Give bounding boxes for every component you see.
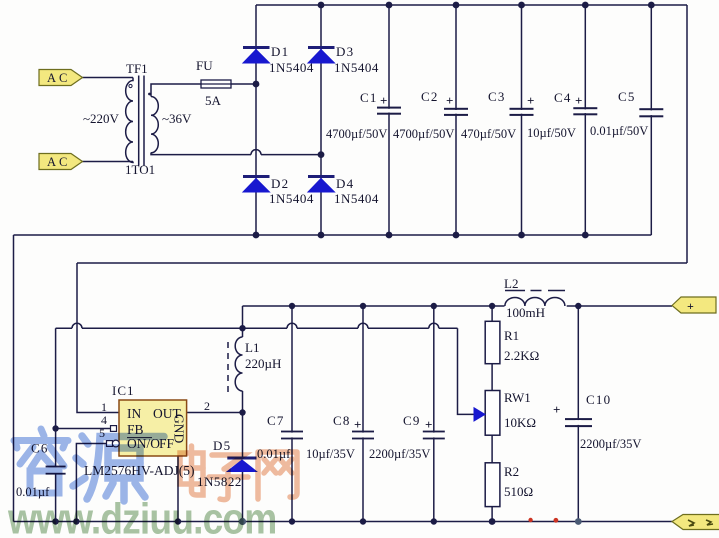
svg-text:1TO1: 1TO1 — [125, 162, 155, 177]
diode D1 1N5404 — [243, 44, 314, 75]
svg-text:C1: C1 — [360, 90, 378, 105]
capacitor C7 0.01uf — [257, 413, 303, 461]
svg-text:10KΩ: 10KΩ — [504, 415, 536, 430]
stray red marks — [528, 518, 532, 522]
svg-text:D5: D5 — [213, 438, 231, 453]
svg-text:FU: FU — [196, 58, 213, 73]
svg-text:220µH: 220µH — [245, 356, 281, 371]
node fuse to bridge junction — [253, 81, 260, 88]
wire right feed drop — [686, 5, 688, 263]
resistor R2 510 — [485, 463, 533, 507]
svg-text:TF1: TF1 — [126, 61, 148, 76]
svg-text:510Ω: 510Ω — [504, 484, 533, 499]
svg-text:+: + — [687, 299, 694, 313]
junction dots top bus — [318, 2, 655, 9]
capacitor C10 2200uf/35V — [553, 392, 641, 451]
wire feedback left vertical to FB pin and C6 — [55, 328, 57, 466]
capacitor C6 0.01uf — [16, 441, 66, 500]
svg-text:AC: AC — [47, 71, 70, 85]
wire FB pin line — [56, 428, 111, 430]
junction dots ground bus — [52, 518, 581, 525]
AC terminal flag bottom — [39, 154, 83, 170]
svg-text:+: + — [380, 93, 387, 108]
output terminal flag positive — [672, 297, 716, 313]
svg-text:2200µf/35V: 2200µf/35V — [369, 447, 430, 461]
watermark layer — [7, 429, 297, 538]
svg-text:R2: R2 — [504, 464, 519, 479]
wire IC GND pin to ground — [177, 456, 179, 522]
node secondary to bridge junction — [318, 151, 325, 158]
svg-text:GND: GND — [172, 414, 187, 443]
wire IC pin2 to switch node — [187, 412, 243, 414]
pin 5 ON/OFF pad — [107, 441, 113, 447]
wire left edge ground drop — [13, 235, 15, 522]
wire C1 branch — [388, 5, 390, 235]
watermark char dian salmon — [180, 446, 203, 495]
svg-text:470µf/50V: 470µf/50V — [461, 127, 516, 141]
svg-text:L1: L1 — [245, 340, 259, 355]
watermark char zi salmon — [209, 455, 248, 500]
wire feedback net horizontal with hops — [56, 323, 458, 328]
wire C4 branch — [584, 5, 586, 235]
svg-text:+: + — [575, 93, 582, 108]
svg-text:+: + — [354, 417, 361, 432]
svg-text:1: 1 — [101, 400, 107, 414]
wire R1 RW1 R2 chain — [491, 306, 493, 522]
svg-text:5A: 5A — [205, 93, 222, 108]
capacitor C3 470uf/50V — [461, 89, 534, 141]
svg-text:4: 4 — [101, 413, 107, 427]
svg-text:C2: C2 — [421, 89, 439, 104]
wire ground bus — [14, 521, 673, 523]
watermark char yuan blue — [73, 436, 164, 501]
wire AC1 to transformer — [83, 77, 134, 79]
svg-text:2200µf/35V: 2200µf/35V — [580, 437, 641, 451]
svg-text:www.dziuu.com: www.dziuu.com — [7, 494, 276, 538]
wire C9 branch — [433, 306, 435, 522]
inductor L1 220uH — [228, 337, 243, 392]
svg-text:AC: AC — [47, 155, 70, 169]
wire feedback right vertical to RW1 wiper — [458, 328, 476, 414]
svg-text:2.2KΩ: 2.2KΩ — [504, 348, 539, 363]
pin 4 FB pad — [111, 426, 117, 432]
wire C5 branch — [650, 5, 652, 235]
capacitor C1 4700uf/50V — [326, 90, 401, 141]
svg-text:0.01µf/50V: 0.01µf/50V — [590, 124, 648, 138]
wire secondary bottom to bridge with hop — [151, 150, 321, 155]
svg-text:+: + — [553, 402, 560, 417]
wire switch node vertical with L1 and D5 — [242, 306, 244, 522]
svg-text:D3: D3 — [336, 44, 354, 59]
svg-text:C9: C9 — [403, 413, 421, 428]
junction dots bottom bus — [253, 232, 589, 239]
watermark char rong blue — [14, 429, 68, 493]
wire top positive bus — [256, 4, 687, 6]
wire C3 branch — [521, 5, 523, 235]
svg-text:100mH: 100mH — [506, 305, 545, 320]
wire C6 bottom to ground — [55, 474, 57, 522]
svg-text:~220V: ~220V — [83, 111, 120, 126]
output terminal flag negative — [672, 515, 719, 530]
svg-text:C5: C5 — [618, 89, 636, 104]
wire D1 D2 branch — [255, 5, 257, 235]
svg-text:10µf/50V: 10µf/50V — [527, 126, 576, 140]
wire D3 D4 branch — [320, 5, 322, 235]
svg-text:C3: C3 — [488, 89, 506, 104]
svg-text:D2: D2 — [271, 176, 289, 191]
svg-text:4700µf/50V: 4700µf/50V — [326, 127, 387, 141]
svg-text:L2: L2 — [504, 276, 518, 291]
potentiometer RW1 10K — [474, 390, 536, 435]
capacitor C2 4700uf/50V — [393, 89, 468, 141]
wire ON/OFF pin to ground — [76, 444, 113, 522]
svg-text:IN: IN — [127, 406, 141, 421]
wire AC2 to transformer — [83, 161, 134, 163]
wire output bus — [243, 305, 673, 307]
svg-text:D1: D1 — [271, 44, 289, 59]
svg-text:1N5404: 1N5404 — [334, 60, 379, 75]
svg-text:C4: C4 — [554, 90, 572, 105]
svg-text:2: 2 — [204, 399, 210, 413]
fuse FU — [196, 58, 231, 108]
resistor R1 2.2K — [485, 321, 539, 363]
wire C10 branch — [577, 306, 579, 522]
diode D4 1N5404 — [308, 176, 379, 206]
svg-text:~36V: ~36V — [162, 111, 192, 126]
svg-text:C8: C8 — [333, 413, 351, 428]
junction dots regulator section — [52, 303, 581, 432]
svg-text:D4: D4 — [336, 176, 354, 191]
diode D2 1N5404 — [243, 176, 314, 206]
svg-text:+: + — [446, 93, 453, 108]
capacitor C4 10uf/50V — [527, 90, 597, 140]
svg-text:+: + — [527, 93, 534, 108]
capacitor C5 0.01uf/50V — [590, 89, 663, 138]
diode D3 1N5404 — [308, 44, 379, 75]
inductor L2 100mH — [505, 291, 565, 307]
svg-text:IC1: IC1 — [112, 383, 135, 398]
IC1 LM2576HV-ADJ switching regulator — [84, 383, 210, 478]
wire left feed vertical to IC pin1 — [77, 263, 119, 413]
capacitor C9 2200uf/35V — [369, 413, 445, 461]
diode D5 1N5822 — [197, 438, 257, 489]
wire secondary top to fuse to bridge — [151, 84, 256, 97]
svg-text:1N5404: 1N5404 — [269, 60, 314, 75]
wire bottom negative bus — [14, 234, 652, 236]
wire C8 branch — [362, 306, 364, 522]
svg-text:C7: C7 — [267, 413, 285, 428]
svg-text:+: + — [425, 417, 432, 432]
svg-text:R1: R1 — [504, 328, 519, 343]
svg-text:1N5404: 1N5404 — [269, 191, 314, 206]
transformer TF1 — [126, 76, 159, 166]
wire C7 branch — [291, 306, 293, 522]
wire feed line to regulator — [77, 262, 687, 264]
svg-text:4700µf/50V: 4700µf/50V — [393, 127, 454, 141]
capacitor C8 10uf/35V — [306, 413, 374, 461]
watermark char wang salmon — [258, 452, 297, 499]
AC terminal flag top — [39, 70, 83, 86]
wire C2 branch — [455, 5, 457, 235]
svg-text:C10: C10 — [586, 392, 611, 407]
svg-text:10µf/35V: 10µf/35V — [306, 447, 355, 461]
svg-text:RW1: RW1 — [504, 390, 531, 405]
svg-text:1N5404: 1N5404 — [334, 191, 379, 206]
